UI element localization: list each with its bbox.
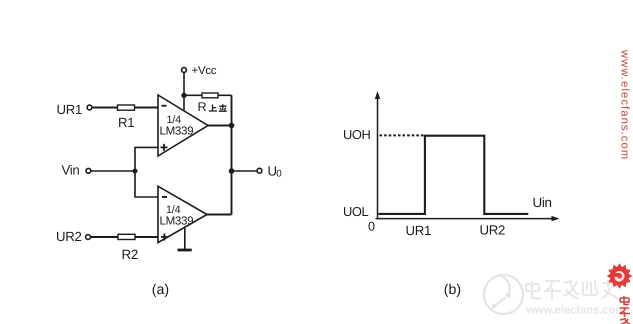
wire Vin to junction: [91, 170, 135, 172]
wire Vcc down: [183, 73, 185, 112]
resistor R1: [118, 105, 135, 110]
U2 inverting input marker: [162, 196, 167, 198]
wire output node to U0 terminal: [232, 170, 258, 172]
svg-text:R1: R1: [118, 115, 134, 130]
resistor R pull-up: [202, 93, 218, 98]
svg-text:+Vcc: +Vcc: [192, 65, 217, 77]
transfer curve: [379, 136, 529, 214]
dashed UOH level line: [380, 134, 425, 136]
wire Vin junction down to U2 - input: [135, 171, 158, 197]
pull-up resistor label 上拉 (hand-drawn CJK): [209, 104, 227, 111]
svg-text:R2: R2: [122, 247, 139, 262]
wire R2 to U2 + input: [135, 236, 158, 238]
svg-text:UR1: UR1: [406, 223, 431, 238]
svg-text:LM339: LM339: [160, 124, 194, 137]
svg-text:UOH: UOH: [343, 127, 371, 142]
wire pull-up to output rail: [218, 94, 232, 96]
junction Vcc node: [181, 93, 186, 98]
svg-text:0: 0: [368, 220, 375, 234]
terminal UR2: [86, 235, 91, 240]
wire U1 output to rail: [208, 125, 232, 127]
svg-text:0: 0: [276, 168, 282, 179]
junction output node: [229, 168, 235, 174]
red starburst seal: [607, 263, 633, 289]
wire UR2 to R2: [90, 236, 118, 238]
watermark logo circle: [484, 275, 523, 314]
svg-text:R: R: [198, 100, 207, 114]
wire Vin junction up to U1 + input: [135, 147, 158, 171]
terminal U0: [257, 168, 262, 173]
svg-text:(a): (a): [152, 282, 169, 298]
op-amp U1 (1/4 LM339 top comparator): [158, 95, 208, 156]
svg-text:UR1: UR1: [57, 102, 82, 117]
svg-text:Vin: Vin: [62, 162, 80, 177]
svg-text:(b): (b): [444, 282, 461, 298]
svg-text:UR2: UR2: [56, 229, 81, 244]
wire U2 output to rail: [207, 214, 232, 216]
svg-text:UOL: UOL: [343, 204, 369, 219]
x axis: [376, 218, 555, 220]
svg-text:Uin: Uin: [533, 195, 552, 210]
watermark text 电子发烧友 (hand-drawn faint strokes): [526, 280, 618, 299]
svg-text:www.elecfans.com: www.elecfans.com: [525, 305, 625, 317]
svg-text:www.elecfans.com: www.elecfans.com: [619, 49, 631, 160]
wire R1 to U1 inverting input: [135, 107, 159, 109]
wire Vcc to pull-up resistor: [184, 94, 202, 96]
U1 non-inverting input marker: [161, 144, 168, 151]
U1 inverting input marker: [162, 105, 167, 107]
ground stub wire: [184, 228, 186, 249]
svg-text:UR2: UR2: [480, 222, 505, 237]
y axis: [377, 96, 379, 220]
U2 non-inverting input marker: [161, 234, 168, 241]
ground: [178, 249, 192, 252]
junction U1 output: [229, 123, 235, 129]
wire UR1 to R1: [92, 107, 118, 109]
terminal +Vcc: [182, 68, 187, 73]
junction Vin node: [133, 169, 138, 174]
terminal Vin: [86, 168, 91, 173]
wire output rail vertical: [231, 95, 233, 214]
red CJK text 电子发烧友 vertical (hand-drawn): [620, 296, 631, 324]
resistor R2: [118, 234, 135, 239]
svg-text:LM339: LM339: [160, 215, 194, 228]
terminal UR1: [87, 105, 92, 110]
op-amp U2 (1/4 LM339 bottom comparator): [158, 186, 207, 242]
